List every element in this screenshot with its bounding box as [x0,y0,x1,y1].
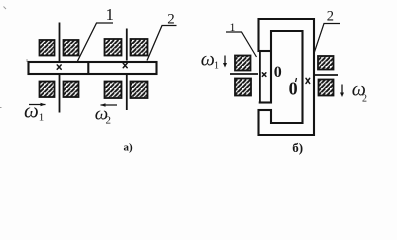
svg-text:б): б) [292,140,303,155]
svg-text:1: 1 [39,112,45,124]
svg-text:1: 1 [214,61,219,72]
svg-text:а): а) [124,142,134,154]
svg-text:2: 2 [106,115,112,127]
svg-text:ω: ω [24,99,39,123]
svg-text:2: 2 [327,9,334,25]
svg-text:0: 0 [289,79,298,99]
svg-text:ω: ω [201,49,215,71]
svg-text:1: 1 [230,20,236,34]
svg-text:1: 1 [106,5,115,24]
svg-text:2: 2 [362,94,367,105]
svg-text:0: 0 [274,64,282,81]
svg-text:2: 2 [167,12,175,28]
